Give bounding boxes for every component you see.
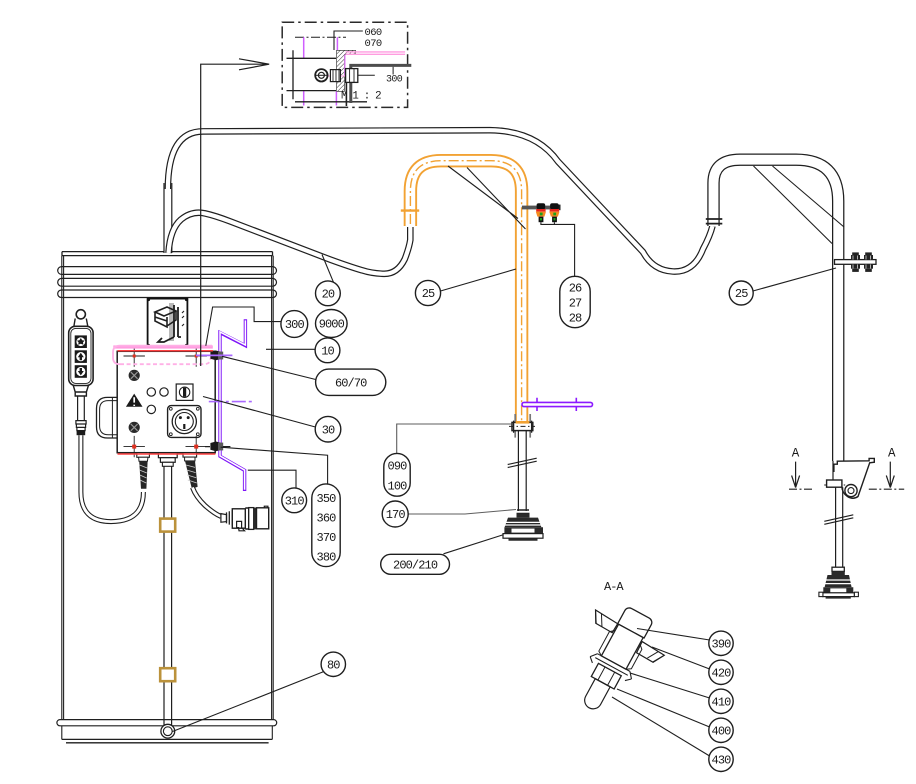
svg-text:28: 28 [569,312,582,326]
right lance strut lines [754,166,845,244]
tank bottom edge [62,739,272,742]
detail plate outline [287,50,368,102]
cable to plug [193,488,222,517]
colored bolt 1 [536,203,546,222]
cable gland A [137,453,150,489]
middle lance break mark [508,458,537,467]
balloon 310 [282,488,307,513]
svg-text:25: 25 [422,287,435,301]
right lance bracket with roller [824,458,874,498]
svg-text:200/210: 200/210 [393,559,438,573]
balloon 25 left [415,280,440,305]
tank rib 3 [58,290,277,298]
detail hatched wall [337,50,356,91]
leader 25 right [753,268,836,291]
leader 10 [266,348,315,350]
right lance hose connector [706,219,723,224]
svg-text:30: 30 [322,423,335,437]
svg-text:090: 090 [388,460,408,474]
leader 20 [322,255,334,283]
BALLOONS [281,276,753,771]
STICKER label on tank [147,298,188,347]
balloon 430 [709,747,733,771]
tank right wall [272,256,274,720]
orange lance centerline [410,161,521,423]
tube clamp 1 (tan) [160,519,175,532]
tank top rim [62,252,273,256]
bracket bottom bolt [205,442,230,452]
pendant button up-star [75,335,87,348]
leader 090/100 [397,424,512,453]
right lance foot [819,567,859,598]
leader 410 [630,673,710,698]
balloon 60/70 [316,369,386,395]
tube clamp 2 (tan) [160,668,175,681]
svg-text:10: 10 [321,345,334,359]
svg-text:20: 20 [322,288,335,302]
svg-text:60/70: 60/70 [335,376,367,390]
detail pipe below [345,82,347,106]
tank lower wall [62,726,272,740]
middle lance clamp [509,414,535,438]
leader 310 [248,470,296,488]
crosshair top-left [124,345,145,366]
leader 80 [173,672,324,732]
PENDANT control [69,310,93,436]
balloon 10 [315,338,340,363]
A-A section arrows [789,446,904,489]
svg-text:100: 100 [388,479,408,493]
warning triangle [126,394,143,407]
svg-text:80: 80 [327,659,340,673]
svg-text:A: A [792,446,800,460]
middle lance foot [503,510,543,541]
balloon 410 [709,689,733,713]
detail magenta ticks [304,37,338,105]
svg-text:400: 400 [712,725,732,739]
tank left wall [62,256,64,720]
CEE socket [168,406,201,438]
balloon 30 [315,416,341,442]
detail pink rail lines [346,52,406,54]
leader 170 [408,510,516,515]
detail gray angle bracket [349,64,411,103]
pendant cable upper [78,396,85,421]
detail centerline top [295,36,346,38]
balloon 090/100 [384,453,410,496]
indicator lights [147,388,155,396]
PURPLE Z-bracket [220,319,245,491]
svg-text:410: 410 [712,696,732,710]
CONTROL BOX [97,345,216,457]
cable gland B + suction tube [158,453,177,738]
leader 200/210 [444,535,504,554]
svg-text:430: 430 [712,754,732,768]
balloon 390 [709,631,733,655]
svg-text:390: 390 [712,638,732,652]
RIGHT LANCE tube [706,160,844,461]
svg-text:380: 380 [317,551,337,565]
bracket top bolt [196,351,232,361]
svg-text:A: A [888,446,896,460]
HOSE 1 (tank to right lance) [168,130,713,271]
crosshair bottom-left [124,436,145,457]
leader 30 [203,397,315,427]
LEADERS [173,255,837,757]
pendant cable loop to box [81,435,143,521]
svg-text:A-A: A-A [604,580,624,594]
svg-text:25: 25 [735,287,748,301]
right lance lower tube [824,487,853,567]
knob 2 [129,422,140,433]
TANK [57,252,277,743]
balloon 25 right [729,281,753,305]
tube bottom loop [161,724,175,738]
crosshair top-right [186,345,207,366]
tank rib 2 [58,278,277,286]
PINK mounting rail highlight [113,345,213,364]
purple bar bracket at orange lance [522,398,593,411]
balloon 9000 [316,310,348,338]
leader 300/9000 [206,307,282,346]
orange lance strut lines [448,166,526,229]
middle lance lower tube [508,431,537,511]
detail 060 leader [334,31,363,50]
tank bottom ring [57,720,277,726]
red line box bottom [118,453,216,455]
purple dash centerline at box [209,401,255,403]
leader 390 [637,629,710,641]
bolt bar (parts 26/27/28) [522,203,561,222]
balloon 20 [316,281,341,306]
svg-text:360: 360 [317,512,337,526]
balloon 170 [382,501,408,527]
leader 25 left [441,269,517,291]
DETAIL callout arrow [201,59,270,366]
HOSE 2 (tank to orange lance) [169,213,411,274]
svg-text:370: 370 [317,531,337,545]
knob 1 [129,370,140,381]
svg-text:M 1 : 2: M 1 : 2 [341,91,381,103]
RIGHT LANCE clamp bar with bolts [835,252,877,272]
tank rib 1 [58,267,277,275]
svg-text:350: 350 [317,492,337,506]
leader 430 [612,697,710,756]
DETAIL box [282,22,411,107]
rotary switch [176,384,193,400]
svg-text:9000: 9000 [319,318,345,332]
svg-text:26: 26 [569,282,582,296]
pendant button raise [75,350,87,363]
svg-text:070: 070 [365,38,382,50]
leader 350-380 [221,447,328,484]
leader 400 [617,689,710,727]
CEE plug [221,506,269,531]
balloon 300 [281,311,308,338]
A-A SECTION assembly [553,594,676,728]
balloon 350/360/370/380 [312,484,340,567]
svg-text:300: 300 [285,318,305,332]
detail bolt [315,69,375,83]
balloon 200/210 [381,554,450,574]
svg-text:27: 27 [569,297,582,311]
detail 300 tick [392,67,394,75]
balloon 400 [709,718,733,742]
leader 60/70 [222,356,316,379]
svg-text:420: 420 [712,667,732,681]
box left bump [97,397,118,438]
balloon 80 [321,652,345,676]
svg-text:300: 300 [386,74,403,85]
balloon 420 [709,660,733,684]
leader to balloons 26/27/28 [541,222,575,276]
orange collar [401,209,419,211]
colored bolt 2 [549,203,559,222]
svg-text:170: 170 [386,508,406,522]
pendant button lower [75,365,87,378]
cable gland C [183,453,198,489]
leader 420 [652,647,710,669]
ORANGE LANCE [401,161,526,423]
svg-text:310: 310 [285,495,305,509]
balloon 26/27/28 [560,276,590,327]
crosshair bottom-right [186,436,207,457]
right lance collar [827,480,842,487]
right lance break mark [824,515,853,525]
